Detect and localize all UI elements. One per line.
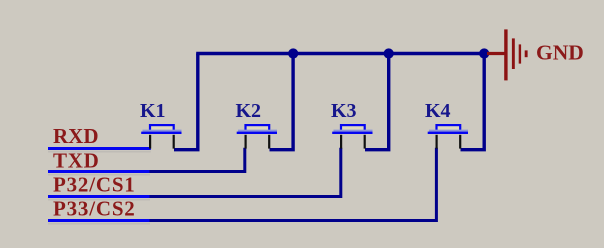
push button K2 bbox=[236, 100, 278, 148]
push button K4 bbox=[425, 100, 468, 148]
svg-text:P32/CS1: P32/CS1 bbox=[53, 173, 136, 197]
wire: K1 right pin jog and riser to rail bbox=[174, 54, 198, 150]
svg-text:K3: K3 bbox=[331, 100, 357, 122]
junction dot at K3 riser bbox=[384, 48, 394, 58]
ground bbox=[487, 29, 528, 80]
wire net P32/CS1 ghost shading bbox=[48, 199, 150, 201]
wire net P33/CS2 (bright segment) bbox=[48, 219, 150, 222]
wire net P33/CS2 ghost shading bbox=[48, 223, 150, 225]
wire net P32/CS1 continuation to K3 left pin bbox=[150, 148, 341, 197]
wire net TXD (bright segment) bbox=[48, 170, 150, 173]
push button K1 bbox=[140, 100, 182, 148]
wire net RXD ghost shading bbox=[48, 151, 151, 153]
svg-text:K1: K1 bbox=[140, 100, 166, 122]
svg-text:K2: K2 bbox=[236, 100, 262, 122]
wire: K3 right pin jog and riser to rail bbox=[365, 54, 389, 150]
svg-text:TXD: TXD bbox=[53, 149, 99, 173]
wire: top GND rail bbox=[196, 52, 484, 56]
svg-text:RXD: RXD bbox=[53, 124, 99, 148]
wire net TXD continuation to K2 left pin bbox=[150, 148, 245, 172]
wire net P33/CS2 continuation to K4 left pin bbox=[150, 148, 437, 221]
svg-text:GND: GND bbox=[536, 40, 584, 64]
push button K3 bbox=[331, 100, 373, 148]
junction dot at K4 riser / GND bbox=[479, 48, 489, 58]
wire net RXD (bright segment) bbox=[48, 147, 151, 150]
junction dot at K2 riser bbox=[288, 48, 298, 58]
wire: K2 right pin jog and riser to rail bbox=[270, 54, 294, 150]
wire net P32/CS1 (bright segment) bbox=[48, 195, 150, 198]
wire net TXD ghost shading bbox=[48, 174, 150, 176]
svg-text:P33/CS2: P33/CS2 bbox=[53, 196, 136, 220]
wire: K4 right pin jog and riser to rail bbox=[461, 54, 485, 150]
svg-text:K4: K4 bbox=[425, 100, 451, 122]
